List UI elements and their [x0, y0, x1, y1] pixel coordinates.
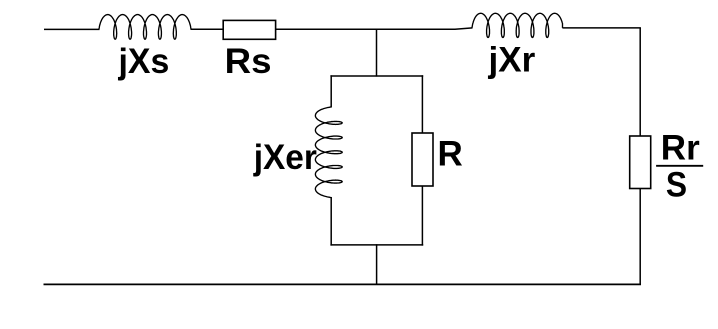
fraction bar of Rr/S [656, 165, 703, 167]
wire: bottom rail [44, 283, 642, 285]
wire: parallel box bottom edge [330, 244, 423, 246]
wire: stem from box bottom to bottom rail [376, 244, 378, 284]
resistor Rs [223, 20, 275, 39]
wire: jXr to top right corner [562, 27, 641, 29]
svg-text:Rr: Rr [661, 128, 700, 167]
resistor R [412, 133, 433, 186]
resistor Rr/S [630, 136, 651, 189]
wire: between jXs and Rs [191, 28, 224, 30]
svg-text:jXer: jXer [253, 138, 318, 177]
inductor jXr [472, 13, 563, 37]
inductor jXs [99, 15, 191, 40]
wire: node stem from top rail to parallel box [376, 29, 378, 77]
svg-text:jXr: jXr [488, 41, 536, 80]
wire: right branch of parallel box [421, 75, 423, 245]
svg-text:Rs: Rs [225, 42, 272, 81]
svg-text:R: R [438, 135, 463, 174]
wire: Rs to node, node to jXr [276, 28, 473, 29]
wire: top rail left segment [44, 28, 100, 30]
svg-text:S: S [666, 166, 687, 205]
wire: left branch upper segment [330, 75, 332, 107]
inductor jXer [315, 107, 342, 198]
wire: left branch lower segment [330, 197, 332, 246]
wire: parallel box top edge [330, 75, 423, 77]
svg-text:jXs: jXs [118, 42, 170, 81]
wire: right vertical branch [639, 28, 641, 285]
